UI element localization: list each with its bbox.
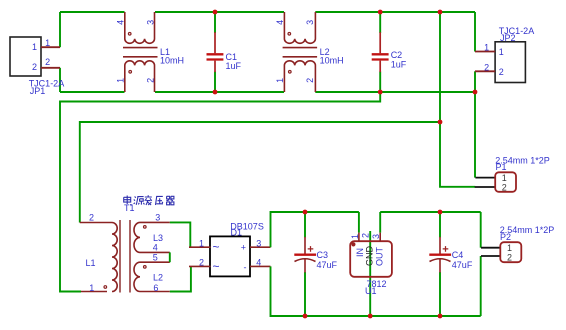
wire pin3 to D1 pin1 — [170, 222, 191, 247]
wire mid rail segment 1 — [60, 91, 125, 93]
svg-text:10mH: 10mH — [320, 56, 344, 66]
wire P2 pin2 drop — [480, 256, 482, 316]
junction node T1 pin2 line — [438, 120, 443, 125]
svg-text:2: 2 — [32, 62, 37, 72]
wire U1 gnd drop — [369, 231, 371, 316]
junction node U1 gnd on gnd rail — [368, 314, 373, 319]
wire line to T1 pin2 — [80, 122, 440, 223]
svg-text:3: 3 — [371, 234, 381, 239]
L2 polarity dot pin1 — [289, 71, 292, 74]
junction node C3 top on +12V-in rail — [303, 210, 308, 215]
svg-text:2: 2 — [507, 253, 512, 263]
wire top rail segment 1 — [60, 11, 125, 13]
svg-text:2: 2 — [502, 182, 507, 192]
L1 top winding — [125, 12, 155, 43]
svg-text:3: 3 — [305, 20, 315, 25]
connector JP2 — [475, 26, 534, 83]
svg-text:2: 2 — [199, 257, 204, 267]
pin stubs — [359, 233, 380, 242]
svg-text:JP1: JP1 — [30, 86, 46, 96]
L1 polarity dot pin1 — [129, 71, 132, 74]
L2 polarity dot pin4 — [288, 33, 291, 36]
junction node C4 top on +12V-out rail — [438, 210, 443, 215]
svg-text:P1: P1 — [496, 162, 507, 172]
wire top rail segment 3 — [315, 11, 475, 13]
svg-text:47uF: 47uF — [452, 260, 473, 270]
svg-text:1: 1 — [499, 47, 504, 57]
wire U1 pin3 riser and out rail — [380, 212, 481, 233]
wire mid rail segment 2 — [155, 91, 284, 93]
svg-text:6: 6 — [153, 283, 158, 293]
C2 plates — [372, 54, 389, 59]
transformer T1 — [80, 195, 174, 292]
C3 negative plate arc — [295, 259, 316, 262]
svg-text:3: 3 — [256, 238, 261, 248]
JP1 pin 2 stub — [41, 67, 60, 69]
wire line net vertical to P1 pin2 — [440, 12, 475, 187]
junction dots top section — [213, 10, 478, 125]
svg-text:+: + — [241, 242, 246, 252]
pin marker dot — [351, 242, 355, 246]
svg-text:OUT: OUT — [374, 247, 384, 267]
svg-text:GND: GND — [364, 246, 374, 267]
svg-text:5: 5 — [153, 253, 158, 263]
svg-text:1: 1 — [199, 238, 204, 248]
connector JP1 — [10, 37, 64, 96]
wire D1 pin4 down to gnd rail — [271, 266, 481, 316]
svg-text:2: 2 — [45, 57, 50, 67]
capacitor C2 — [372, 32, 407, 72]
wire pins 4-5 join — [169, 252, 171, 262]
U1 body — [350, 241, 392, 277]
P1 body — [495, 172, 516, 192]
P1 pin stubs — [475, 178, 496, 187]
polarity dots — [104, 226, 146, 289]
svg-text:~: ~ — [213, 240, 220, 254]
svg-text:4: 4 — [256, 257, 261, 267]
junction node C2 bottom / primary tap — [378, 90, 383, 95]
C1 leads — [214, 32, 216, 72]
svg-text:D1: D1 — [231, 227, 243, 237]
svg-text:1: 1 — [89, 283, 94, 293]
C3 leads — [304, 237, 306, 273]
C1 plates — [207, 54, 224, 59]
C4 positive plate — [429, 254, 451, 256]
C4 negative plate arc — [430, 259, 451, 262]
svg-text:2: 2 — [361, 233, 371, 238]
svg-text:JP2: JP2 — [500, 33, 516, 43]
core lines — [120, 220, 130, 293]
wire C2 leads — [379, 12, 381, 92]
junction node C2 top on L rail — [378, 10, 383, 15]
JP2 pin 1 stub — [475, 51, 495, 53]
junction node C3 bottom on gnd rail — [303, 314, 308, 319]
junction node JP2 pin2 on N rail — [473, 90, 478, 95]
wire JP1 pin1 riser — [59, 12, 61, 47]
junction dots bottom section — [303, 210, 443, 319]
name 电源变压器 drawn as strokes — [124, 195, 174, 205]
C3 positive plate — [294, 254, 316, 256]
L2 bottom winding — [284, 61, 315, 92]
junction node C1 top on L rail — [213, 10, 218, 15]
wire JP2 pin1 drop from rail — [474, 12, 476, 52]
choke L1 — [115, 12, 184, 92]
wire JP2 pin2 to mid rail and P1 pin1 — [474, 71, 476, 177]
JP2 body — [495, 42, 525, 83]
svg-text:2: 2 — [305, 78, 315, 83]
svg-text:4: 4 — [275, 20, 285, 25]
secondary L2 winding — [134, 262, 170, 291]
connector P2 — [481, 225, 554, 263]
wire primary line to T1 pin1 — [60, 92, 380, 292]
wire C4 leads — [439, 212, 441, 316]
C3 plus mark — [308, 246, 314, 252]
svg-text:P2: P2 — [500, 232, 511, 242]
svg-text:C3: C3 — [317, 250, 329, 260]
primary winding — [112, 223, 117, 292]
svg-text:1: 1 — [115, 78, 125, 83]
P2 pin stubs — [481, 248, 500, 256]
C4 plus mark — [443, 246, 449, 252]
L1 polarity dot pin4 — [128, 33, 131, 36]
svg-text:1: 1 — [507, 243, 512, 253]
svg-text:C2: C2 — [391, 50, 403, 60]
svg-text:4: 4 — [115, 20, 125, 25]
wire top rail segment 2 — [155, 11, 284, 13]
svg-text:L3: L3 — [153, 233, 163, 243]
wires bridge to output rails — [271, 212, 481, 316]
C2 leads — [379, 32, 381, 72]
svg-text:2: 2 — [89, 212, 94, 222]
svg-text:2: 2 — [484, 62, 489, 72]
wire pin6 to D1 pin2 — [170, 266, 191, 291]
bridge rectifier D1 — [189, 222, 271, 277]
svg-text:1: 1 — [484, 43, 489, 53]
svg-text:U1: U1 — [365, 286, 377, 296]
svg-text:-: - — [244, 263, 247, 273]
wire JP1 pin2 dropper — [59, 68, 61, 92]
svg-text:10mH: 10mH — [160, 56, 184, 66]
junction node P1 branch on L rail — [438, 10, 443, 15]
svg-text:L2: L2 — [153, 273, 163, 283]
svg-text:L1: L1 — [86, 258, 96, 268]
L1 core line 1 — [123, 47, 158, 49]
svg-text:2: 2 — [499, 67, 504, 77]
L2 core line 1 — [283, 47, 318, 49]
wires transformer secondary to bridge — [170, 222, 191, 291]
wire C3 leads — [304, 212, 306, 316]
L1 core line 2 — [123, 56, 158, 58]
svg-text:2: 2 — [145, 78, 155, 83]
junction node C1 bottom on N rail — [213, 90, 218, 95]
svg-text:1: 1 — [350, 234, 360, 239]
svg-text:1uF: 1uF — [226, 61, 242, 71]
P2 body — [500, 242, 521, 262]
connector P1 — [475, 155, 550, 192]
L1 bottom winding — [125, 61, 155, 92]
L2 core line 2 — [283, 56, 318, 58]
svg-text:3: 3 — [145, 20, 155, 25]
D1 body — [210, 236, 250, 276]
D1 pin stubs 1 2 3 4 — [189, 247, 271, 266]
L2 top winding — [284, 12, 315, 43]
choke L2 — [275, 12, 344, 92]
svg-text:1: 1 — [45, 38, 50, 48]
capacitor C1 — [207, 32, 242, 72]
svg-text:~: ~ — [213, 260, 220, 274]
svg-text:4: 4 — [153, 242, 158, 252]
JP1 pin 1 stub — [41, 46, 60, 48]
wire P2 pin1 drop — [480, 212, 482, 248]
regulator U1 — [350, 233, 392, 296]
wire U1 pin1 riser — [358, 212, 360, 233]
junction node C4 bottom on gnd rail — [438, 314, 443, 319]
wire mid rail segment 3 — [315, 91, 475, 93]
svg-text:T1: T1 — [124, 203, 135, 213]
wire C1 leads — [214, 12, 216, 92]
JP1 body — [10, 37, 41, 76]
svg-text:C4: C4 — [452, 250, 464, 260]
svg-text:1uF: 1uF — [391, 60, 407, 70]
capacitor C3 — [294, 237, 337, 273]
secondary L3 winding — [134, 222, 170, 252]
capacitor C4 — [429, 237, 473, 273]
JP2 pin 2 stub — [475, 70, 495, 72]
svg-text:1: 1 — [32, 42, 37, 52]
svg-text:47uF: 47uF — [317, 260, 338, 270]
primary stubs — [80, 223, 112, 292]
svg-text:3: 3 — [155, 212, 160, 222]
svg-text:1: 1 — [275, 78, 285, 83]
wire D1 pin3 up to +rail — [271, 212, 359, 247]
C4 leads — [439, 237, 441, 273]
